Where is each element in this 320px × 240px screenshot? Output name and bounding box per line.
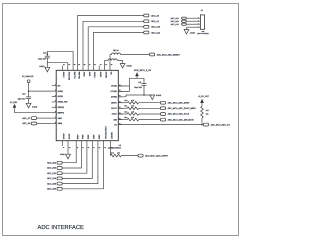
svg-text:DGND: DGND (156, 94, 162, 97)
resistor R18 START row (110, 154, 121, 157)
svg-text:ADC_A14: ADC_A14 (47, 177, 57, 180)
IC U2 bottom pin stubs (62, 141, 110, 146)
connector J1 pin 1 (182, 17, 201, 19)
svg-text:ADC_MCU_ADC_DRDY: ADC_MCU_ADC_DRDY (168, 101, 191, 104)
svg-text:VDD_MCU_3_3V: VDD_MCU_3_3V (134, 69, 152, 72)
net flag ADC_A11 (144, 31, 161, 34)
svg-text:ADC_MCU_ADC_CS: ADC_MCU_ADC_CS (211, 123, 231, 126)
svg-text:DRDY: DRDY (111, 101, 117, 104)
IC U2 bottom pin names (vertical) (62, 126, 113, 140)
svg-text:DIN: DIN (113, 118, 117, 121)
svg-text:AVDD_SW: AVDD_SW (58, 101, 68, 104)
svg-text:AIN3: AIN3 (87, 135, 90, 140)
wire nested bus pin5 to flag ADC_A1 (83, 21, 144, 65)
net flag ADC_MCU_ADC_CS (203, 123, 208, 126)
svg-text:AIN9: AIN9 (98, 135, 101, 140)
wire ADC_A6 to AIN6 pin (37, 123, 52, 125)
svg-text:47R: 47R (131, 116, 135, 119)
net flag ADC_A1 (144, 20, 160, 23)
net flag ADC_MCU_ADC_DIN_MOSI (160, 118, 165, 121)
wire REFN0 to cap bottom (47, 63, 68, 66)
IC U2 right pin stubs (118, 86, 122, 125)
IC U2 top pin stubs (62, 66, 110, 71)
svg-text:3V_REF: 3V_REF (10, 101, 18, 104)
wire ADC_A2 to pin (62, 146, 76, 163)
svg-text:AGND: AGND (32, 106, 38, 109)
svg-text:R18: R18 (111, 152, 114, 155)
svg-text:J1: J1 (201, 9, 204, 12)
svg-text:DVDD: DVDD (111, 85, 117, 88)
wire 3V_ANALOG to AVDD pin (29, 90, 52, 92)
svg-text:ADC_A02: ADC_A02 (47, 161, 57, 164)
svg-text:47R: 47R (117, 152, 121, 155)
svg-text:13: 13 (88, 147, 90, 149)
svg-text:START/SYNC: START/SYNC (104, 126, 107, 139)
svg-text:AIN6: AIN6 (58, 122, 63, 125)
svg-text:REFP2: REFP2 (58, 111, 65, 114)
svg-text:AGND: AGND (60, 153, 66, 156)
net flag ADC_MCU_ADC_DOUT_MISO (160, 107, 165, 110)
svg-text:R17: R17 (206, 109, 209, 112)
net flag ADC_MCU_ADC_RESET (150, 53, 181, 56)
wire nested bus pin6 to flag ADC_A10 (88, 27, 144, 66)
junction AVDD branch (28, 90, 30, 92)
svg-text:ADC_MCU_ADC_RESET: ADC_MCU_ADC_RESET (157, 53, 181, 56)
svg-text:AIN12: AIN12 (62, 72, 65, 79)
svg-text:27: 27 (89, 64, 91, 66)
net flag ADC_A0 (144, 14, 160, 17)
wire CS row (118, 124, 203, 126)
connector J1 pin 4 to ground (187, 27, 201, 29)
junction C13 net (47, 53, 49, 55)
svg-text:R16: R16 (124, 116, 127, 119)
svg-text:10µF 16V: 10µF 16V (38, 57, 47, 60)
wire 3V_REF to REFP2 pin (15, 108, 52, 113)
svg-text:10: 10 (69, 147, 71, 149)
svg-text:RESET: RESET (110, 132, 113, 140)
svg-text:ADC_A11: ADC_A11 (151, 31, 161, 34)
svg-text:9: 9 (63, 147, 64, 149)
svg-text:ADC_A1: ADC_A1 (151, 20, 160, 23)
net flag ADC_A12 bottom row3 (57, 172, 62, 175)
ground AGND (C13) (45, 67, 50, 72)
svg-text:IOVDD: IOVDD (111, 90, 118, 93)
ground DGND (IC) (150, 95, 155, 100)
svg-text:ADC_A08: ADC_A08 (47, 182, 57, 185)
svg-text:AINCOM: AINCOM (68, 72, 71, 81)
svg-text:25: 25 (100, 64, 102, 66)
svg-text:23: 23 (111, 64, 113, 66)
svg-text:47R: 47R (131, 110, 135, 113)
svg-text:CS: CS (114, 123, 117, 126)
IC U2 left pin names (58, 84, 68, 125)
svg-text:10µF 16V: 10µF 16V (134, 86, 143, 89)
svg-text:REFP0: REFP0 (73, 72, 76, 80)
svg-text:10k: 10k (206, 112, 209, 115)
svg-text:ADC_A09: ADC_A09 (47, 188, 57, 191)
wire REFP0 decoupling top (47, 51, 73, 65)
ground AGND (J1) (184, 30, 189, 35)
net flag ADC_MCU_ADC_DRDY (160, 101, 165, 104)
svg-text:R15: R15 (124, 110, 127, 113)
svg-text:NW: NW (202, 30, 205, 33)
svg-text:REFN0: REFN0 (77, 72, 80, 80)
svg-text:NC: NC (110, 72, 113, 76)
svg-text:AIN11: AIN11 (99, 72, 102, 78)
svg-text:31: 31 (69, 64, 71, 66)
resistor R17 pullup 10k (201, 106, 204, 118)
wire ADC_A8 to pin (62, 146, 98, 184)
wire VDD node (118, 78, 144, 91)
svg-text:3V_ANALOG: 3V_ANALOG (22, 75, 34, 78)
svg-text:AIN1: AIN1 (88, 72, 91, 77)
wire ADC_A4 to pin (62, 146, 87, 173)
IC U2 top pin names (vertical) (62, 72, 113, 81)
svg-text:ADC_MCU_ADC_DOUT_MISO: ADC_MCU_ADC_DOUT_MISO (168, 107, 197, 110)
ferrite bead FB2 (110, 53, 150, 65)
svg-text:29: 29 (78, 64, 80, 66)
net flag ADC_A08 bottom row5 (57, 182, 62, 185)
wire START pin down (109, 146, 111, 156)
wire DGND pin to ground (118, 95, 152, 97)
svg-text:AGND: AGND (190, 32, 196, 35)
capacitor C13 (45, 51, 50, 67)
svg-text:DOUT: DOUT (111, 107, 117, 110)
svg-text:ADC_A0: ADC_A0 (151, 14, 160, 17)
svg-text:24: 24 (105, 64, 107, 66)
net flag ADC_A09 bottom row6 (57, 187, 62, 190)
resistor R14 DOUT row (118, 107, 160, 110)
svg-text:14: 14 (93, 147, 95, 149)
net flag ADC_A14 bottom row4 (57, 177, 62, 180)
svg-text:DGND: DGND (111, 96, 117, 99)
wire nested bus pin7 to flag ADC_A11 (93, 33, 143, 66)
net flag ADC_MCU_ADC_SCLK (160, 113, 165, 116)
svg-text:DGND: DGND (104, 72, 107, 79)
net flag ADC_A10 (144, 25, 161, 28)
svg-text:ADC_A6: ADC_A6 (22, 122, 31, 125)
svg-text:ADC_MCU_ADC_START: ADC_MCU_ADC_START (145, 154, 168, 157)
svg-text:12: 12 (82, 147, 84, 149)
svg-text:AIN13: AIN13 (62, 133, 65, 140)
resistor R13 DRDY row (118, 101, 160, 104)
wire ADC_A5 to pin (62, 146, 92, 178)
net flag ADC_A03 bottom row2 (57, 167, 62, 170)
net flag ADC_A7 left (31, 117, 37, 120)
svg-text:AIN0: AIN0 (83, 72, 86, 77)
svg-text:11: 11 (77, 147, 79, 149)
svg-text:ADC INTERFACE: ADC INTERFACE (38, 224, 85, 231)
svg-text:47R: 47R (131, 105, 135, 108)
svg-text:DGND: DGND (126, 64, 132, 67)
IC U2 body (56, 70, 118, 140)
IC U2 left pin numbers (55, 84, 56, 124)
svg-text:AVSS: AVSS (68, 134, 71, 140)
svg-text:AVDD: AVDD (58, 90, 64, 93)
wire ADC_A3 to pin (62, 146, 81, 168)
svg-text:ADC_A13: ADC_A13 (171, 23, 179, 26)
svg-text:ADC_A03: ADC_A03 (47, 167, 57, 170)
ground AGND below IC (67, 146, 69, 154)
svg-text:AIN2: AIN2 (92, 135, 95, 140)
svg-text:AIN5: AIN5 (76, 135, 79, 140)
net flag ADC_A02 bottom row1 (57, 161, 62, 164)
connector J1 pin 2 (182, 20, 201, 22)
capacitor C11 (142, 78, 147, 95)
svg-text:16: 16 (104, 147, 106, 149)
ground AGND (C10) (26, 103, 31, 108)
IC U2 top pin numbers (63, 64, 112, 66)
resistor R15 SCLK row (118, 113, 160, 116)
svg-text:+3_3V_VCC: +3_3V_VCC (198, 95, 210, 98)
junction CS pullup (201, 124, 203, 126)
svg-text:AIN7: AIN7 (58, 117, 63, 120)
IC U2 bottom pin numbers (63, 147, 113, 149)
IC U2 right pin numbers (119, 84, 121, 125)
ground DGND (FB3) (120, 64, 125, 69)
svg-text:15: 15 (99, 147, 101, 149)
svg-text:ADC_A10: ADC_A10 (151, 26, 161, 29)
svg-text:ADC_A04: ADC_A04 (171, 17, 179, 20)
resistor R16 DIN row (118, 118, 160, 121)
capacitor C10 (26, 97, 31, 103)
svg-text:AIN4: AIN4 (81, 135, 84, 140)
net flag ADC_MCU_ADC_START (138, 154, 143, 157)
svg-text:ADC_A05: ADC_A05 (171, 20, 179, 23)
svg-text:26: 26 (94, 64, 96, 66)
svg-text:R14: R14 (124, 105, 127, 108)
sheet border frame (3, 4, 239, 236)
svg-text:ADC_MCU_ADC_DIN_MOSI: ADC_MCU_ADC_DIN_MOSI (168, 118, 194, 121)
svg-text:REFN2: REFN2 (58, 106, 65, 109)
wire nested bus pin4 to flag ADC_A0 (78, 16, 144, 66)
svg-text:30: 30 (74, 64, 76, 66)
junction C11 to DGND wire (143, 94, 145, 96)
svg-text:R13: R13 (124, 99, 127, 102)
svg-text:FB2 1k: FB2 1k (113, 49, 119, 52)
svg-text:C13: C13 (43, 52, 46, 55)
svg-text:32: 32 (63, 64, 65, 66)
svg-text:47R: 47R (131, 99, 135, 102)
connector J1 pin 3 (182, 23, 201, 25)
ferrite bead FB3 (105, 59, 123, 66)
IC U2 left pin stubs (52, 86, 56, 124)
svg-text:ADS124S08IPBS: ADS124S08IPBS (108, 147, 122, 150)
net flag ADC_A6 left (31, 122, 37, 125)
svg-text:ADC_MCU_ADC_SCLK: ADC_MCU_ADC_SCLK (168, 113, 190, 116)
svg-text:C11: C11 (138, 81, 141, 84)
svg-text:AVDD: AVDD (58, 95, 64, 98)
svg-text:ADC_A12: ADC_A12 (47, 172, 57, 175)
wire ADC_A9 to pin (62, 146, 103, 189)
wire ADC_A7 to AIN7 pin (37, 117, 52, 119)
svg-text:SCLK: SCLK (112, 113, 118, 116)
svg-text:ADC_A7: ADC_A7 (22, 117, 31, 120)
svg-text:C10: C10 (22, 92, 25, 95)
IC U2 right pin names (111, 85, 118, 127)
svg-text:NC: NC (58, 84, 61, 87)
svg-text:28: 28 (84, 64, 86, 66)
svg-text:10µF 16V: 10µF 16V (18, 97, 27, 100)
svg-text:AIN10: AIN10 (93, 72, 96, 79)
svg-text:AGND: AGND (39, 65, 45, 68)
